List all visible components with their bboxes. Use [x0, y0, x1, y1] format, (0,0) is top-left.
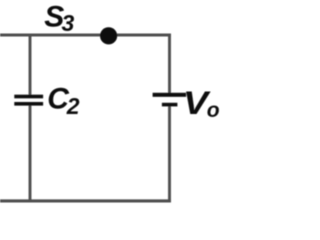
node junction dot on top wire: [100, 27, 117, 44]
battery Vo: bottom (short) plate: [162, 103, 178, 107]
wire: right vertical lower segment (battery bottom plate to bottom wire): [168, 106, 171, 202]
wire: bottom horizontal from left edge to right corner: [0, 199, 171, 202]
capacitor C2: top plate: [14, 95, 43, 99]
capacitor C2: bottom plate: [14, 102, 43, 106]
wire: top horizontal from left edge to right corner: [0, 34, 171, 37]
wire: right vertical upper segment (corner to battery top plate): [168, 34, 171, 93]
svg-text:2: 2: [66, 93, 80, 119]
svg-text:3: 3: [62, 10, 75, 36]
wire: left vertical upper segment (top wire to capacitor top plate): [29, 35, 32, 95]
label S3 (switch name): [44, 0, 74, 36]
battery Vo: top (long) plate: [153, 93, 187, 97]
label C2 (capacitor value): [47, 82, 79, 119]
wire: left vertical lower segment (capacitor bottom plate to bottom wire): [29, 106, 32, 201]
label Vo (output voltage): [183, 85, 220, 122]
svg-text:o: o: [207, 99, 220, 122]
